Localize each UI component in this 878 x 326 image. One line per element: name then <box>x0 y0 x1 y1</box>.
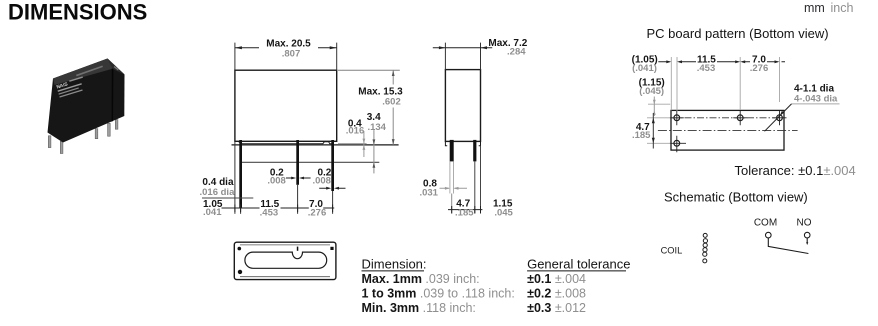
bottom view outline <box>234 242 336 279</box>
svg-text:Schematic (Bottom view): Schematic (Bottom view) <box>664 189 808 204</box>
movable contact arm <box>768 238 808 254</box>
svg-text:.284: .284 <box>507 46 526 57</box>
NO contact stub <box>806 238 808 243</box>
dim 0.2 pin2 <box>286 177 311 179</box>
side pin right <box>473 140 476 162</box>
dim Max 15.3 <box>338 69 400 71</box>
side body outline <box>445 70 480 142</box>
front bottom recess line <box>238 141 335 144</box>
svg-text:.041: .041 <box>203 207 222 218</box>
relay photo <box>48 59 125 154</box>
hole H1 <box>674 115 680 121</box>
svg-text:1 to 3mm .039 to .118 inch:: 1 to 3mm .039 to .118 inch: <box>362 287 515 301</box>
svg-text:.008: .008 <box>312 175 331 186</box>
svg-text:Min. 3mm .118 inch:: Min. 3mm .118 inch: <box>362 301 476 315</box>
svg-text:.134: .134 <box>367 122 386 133</box>
svg-text:.008: .008 <box>267 175 286 186</box>
svg-text:.016: .016 <box>346 126 365 137</box>
svg-text:Max. 1mm .039 inch:: Max. 1mm .039 inch: <box>362 272 480 286</box>
hole H2 <box>737 115 743 121</box>
svg-text:±0.2 ±.008: ±0.2 ±.008 <box>527 287 586 301</box>
hole H4 <box>674 140 680 146</box>
relay body <box>48 59 125 143</box>
centerline top row <box>672 117 783 119</box>
svg-text:NO: NO <box>797 217 812 228</box>
dim 3.4 pin length <box>373 130 375 173</box>
svg-text:DIMENSIONS: DIMENSIONS <box>8 0 147 24</box>
FRONT VIEW <box>200 38 404 218</box>
label 4-1.1 dia leader <box>792 103 840 105</box>
front pin 2 <box>296 140 299 185</box>
svg-text:inch: inch <box>831 1 854 15</box>
body left extension line <box>234 141 236 214</box>
TOLERANCE TABLE <box>362 256 631 315</box>
seating plane line <box>232 144 399 146</box>
svg-text:.185: .185 <box>455 207 474 218</box>
front body outline <box>235 70 337 141</box>
SCHEMATIC <box>661 189 812 263</box>
dim (1.15) <box>648 103 670 105</box>
svg-text:Tolerance: ±0.1±.004: Tolerance: ±0.1±.004 <box>735 163 856 178</box>
front pin 3 <box>331 140 334 191</box>
svg-text:.016 dia: .016 dia <box>200 187 236 198</box>
coil symbol <box>703 233 707 237</box>
svg-text:mm: mm <box>804 1 825 15</box>
pattern top dim extensions <box>671 57 779 111</box>
front pin 1 <box>239 140 242 208</box>
svg-text:(.041): (.041) <box>632 63 657 74</box>
label 0.4 dia leader <box>202 197 253 199</box>
svg-text:.602: .602 <box>382 97 401 108</box>
svg-text:±0.3 ±.012: ±0.3 ±.012 <box>527 301 586 315</box>
svg-text:±0.1 ±.004: ±0.1 ±.004 <box>527 272 586 286</box>
dim 0.2 pin3 <box>319 187 345 189</box>
pattern top dim line <box>658 61 785 63</box>
svg-text:.453: .453 <box>260 207 279 218</box>
svg-text:COIL: COIL <box>661 245 683 255</box>
svg-text:COM: COM <box>754 217 777 228</box>
svg-text:.045: .045 <box>494 207 513 218</box>
dim 4.7 row pitch <box>647 118 670 144</box>
bottom view slot <box>245 252 327 268</box>
pattern outline <box>671 110 784 150</box>
side pin left <box>450 140 454 162</box>
PC BOARD PATTERN <box>632 26 856 178</box>
BOTTOM VIEW <box>234 242 336 279</box>
svg-text:.807: .807 <box>282 49 301 60</box>
pin hole marks <box>238 247 242 251</box>
dim 0.4 standoff <box>338 143 367 145</box>
bottom dimension row 1.05 / 11.5 / 7.0 <box>222 207 335 209</box>
svg-text:.276: .276 <box>308 207 327 218</box>
svg-text:Dimension:: Dimension: <box>362 256 427 271</box>
dim Max 20.5 <box>235 43 337 71</box>
svg-text:General tolerance: General tolerance <box>527 256 630 271</box>
dim Max 7.2 <box>445 43 480 70</box>
centerline middle <box>658 130 798 132</box>
svg-text:.276: .276 <box>750 63 769 74</box>
hole H3 <box>777 115 783 121</box>
side bottom dims 4.7 / 1.15 <box>448 209 482 211</box>
svg-text:.031: .031 <box>419 188 438 199</box>
svg-text:(.045): (.045) <box>639 86 664 97</box>
svg-text:.453: .453 <box>697 63 716 74</box>
pin tip line <box>242 161 380 163</box>
svg-text:PC board pattern (Bottom view): PC board pattern (Bottom view) <box>647 26 829 41</box>
dim 0.8 <box>440 187 468 189</box>
SIDE VIEW <box>419 38 527 218</box>
svg-text:4-.043 dia: 4-.043 dia <box>794 94 838 105</box>
relay pins <box>48 120 118 154</box>
legend mm inch <box>804 1 853 15</box>
svg-text:.185: .185 <box>632 130 651 141</box>
0.8 dim extension lines <box>450 161 454 193</box>
